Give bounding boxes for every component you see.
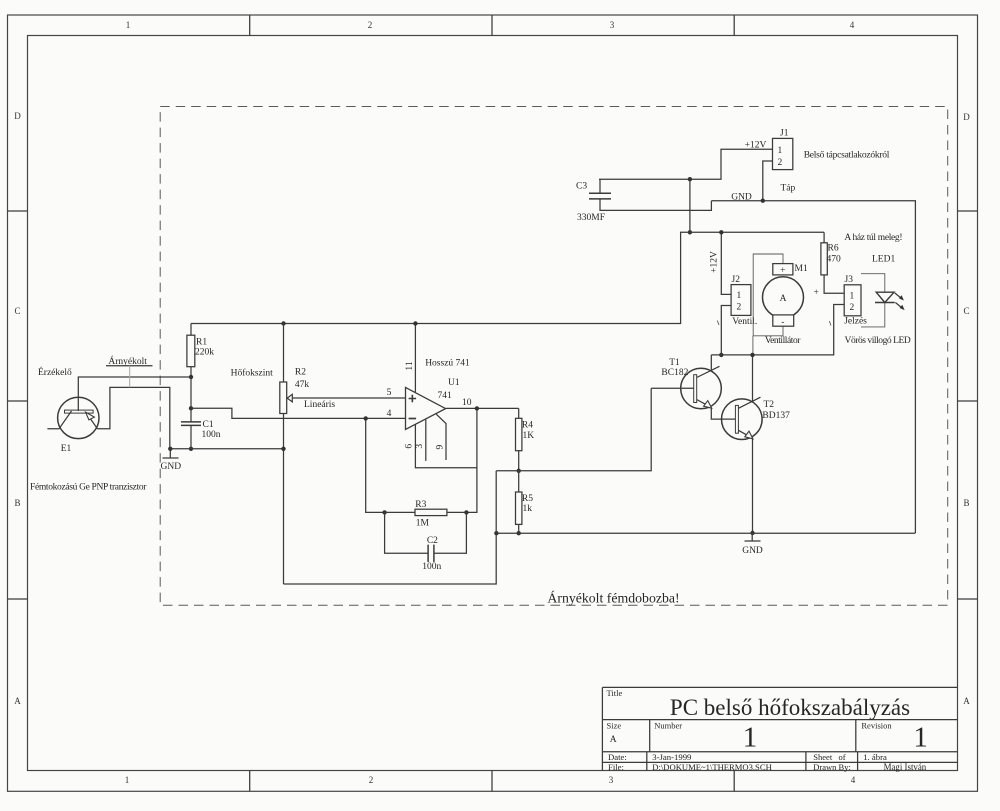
LED external wiring bottom: [861, 303, 885, 327]
GND net wire: [711, 201, 915, 533]
svg-text:Sheet of: Sheet of: [813, 752, 846, 762]
svg-text:GND: GND: [161, 462, 182, 472]
svg-text:10: 10: [462, 398, 472, 408]
R3 leads: [385, 511, 467, 513]
wire sensor node to pin4: [191, 408, 406, 418]
resistor R5: [516, 492, 522, 524]
R1 node junction: [189, 375, 193, 379]
svg-text:1k: 1k: [523, 504, 533, 514]
node X wire to T1 base: [496, 388, 651, 471]
svg-text:4: 4: [851, 775, 856, 785]
title block cell separators: [647, 720, 858, 771]
LED1 flash arrow 1: [895, 293, 903, 300]
E1 emitter diagonal with arrow: [90, 418, 98, 429]
svg-text:R3: R3: [415, 500, 426, 510]
svg-text:+: +: [780, 266, 785, 276]
title block outline: [602, 687, 957, 771]
svg-text:C: C: [963, 306, 969, 316]
svg-text:Fémtokozású Ge PNP tranzisztor: Fémtokozású Ge PNP tranzisztor: [30, 482, 147, 492]
svg-text:741: 741: [438, 391, 453, 401]
svg-text:5: 5: [387, 388, 392, 398]
svg-text:-: -: [781, 317, 784, 327]
+12V distribution rail: [191, 232, 824, 323]
wire J1 pin2 to GND: [763, 161, 773, 201]
svg-text:A: A: [610, 735, 617, 745]
svg-text:+12V: +12V: [710, 251, 720, 273]
junction J1 pin2 gnd: [761, 199, 765, 203]
svg-text:3: 3: [609, 775, 614, 785]
T2 emitter gnd junction: [750, 531, 754, 535]
output junction: [475, 406, 479, 410]
resistor R1: [187, 335, 195, 367]
svg-text:2: 2: [737, 303, 742, 313]
svg-text:9: 9: [435, 444, 445, 449]
svg-text:R2: R2: [295, 368, 306, 378]
svg-text:Drawn By:: Drawn By:: [813, 762, 851, 772]
minus input mark: [409, 418, 417, 420]
R2 gnd junction: [281, 447, 285, 451]
pin4 feedback junction: [364, 416, 368, 420]
svg-text:1M: 1M: [416, 518, 430, 528]
svg-text:2: 2: [850, 303, 855, 313]
T1 emitter: [697, 400, 736, 420]
svg-text:1: 1: [850, 291, 855, 301]
E1 emitter wire to ground: [98, 387, 170, 448]
motor plus terminal box: [773, 264, 793, 275]
svg-text:Táp: Táp: [781, 184, 796, 194]
svg-text:Revision: Revision: [861, 720, 892, 730]
R2 wiper arrow: [292, 397, 405, 399]
svg-text:T2: T2: [764, 400, 775, 410]
svg-text:Hőfokszint: Hőfokszint: [231, 367, 274, 378]
T2 emitter: [738, 430, 752, 533]
T1 base lead: [651, 387, 694, 389]
R3 left junction: [382, 510, 386, 514]
svg-text:E1: E1: [61, 444, 72, 454]
svg-text:1. ábra: 1. ábra: [863, 752, 887, 762]
wire +12V from J1 pin1: [599, 149, 773, 179]
resistor R6: [821, 243, 827, 275]
svg-text:1: 1: [778, 146, 783, 156]
pin 9 stub: [436, 414, 446, 460]
svg-text:B: B: [14, 498, 20, 508]
R5 bottom lead: [518, 524, 520, 533]
svg-text:1: 1: [743, 722, 758, 754]
ground symbol left: [163, 449, 179, 458]
svg-text:1: 1: [913, 722, 928, 754]
svg-text:A: A: [963, 696, 970, 706]
svg-text:100n: 100n: [422, 562, 441, 572]
svg-text:R1: R1: [196, 338, 207, 348]
svg-text:1K: 1K: [523, 431, 535, 441]
R2 bottom lead crossing to gnd: [283, 414, 285, 585]
svg-text:+12V: +12V: [745, 141, 767, 151]
svg-text:1: 1: [737, 291, 742, 301]
pin 11 rail junction: [413, 321, 417, 325]
svg-text:Date:: Date:: [608, 752, 627, 762]
node X junction: [517, 469, 521, 473]
svg-text:Hosszú 741: Hosszú 741: [425, 359, 470, 369]
svg-text:D: D: [14, 111, 21, 121]
potentiometer R2 top lead: [283, 324, 285, 383]
svg-text:100n: 100n: [202, 430, 221, 440]
svg-text:M1: M1: [795, 264, 808, 274]
svg-text:2: 2: [778, 158, 783, 168]
svg-text:C3: C3: [576, 182, 587, 192]
svg-text:GND: GND: [742, 546, 763, 556]
svg-text:B: B: [963, 498, 969, 508]
E1 collector diagonal and stub: [47, 411, 71, 429]
plus input mark: [409, 395, 417, 403]
tick mark near Jelzes: [829, 321, 831, 326]
svg-text:File:: File:: [608, 762, 624, 772]
svg-text:Magi István: Magi István: [884, 762, 927, 772]
C3 top lead: [599, 179, 601, 193]
node junction on +12V wire: [688, 177, 692, 181]
junction J2 pin2 rail: [719, 353, 723, 357]
LED1 cathode bar: [875, 302, 895, 304]
top band zone ticks: [250, 15, 735, 36]
tick mark near Ventil: [717, 321, 719, 326]
C3 bottom lead wire: [600, 199, 711, 211]
svg-text:A ház túl meleg!: A ház túl meleg!: [844, 233, 902, 243]
capacitor C1: [181, 422, 201, 426]
svg-text:3-Jan-1999: 3-Jan-1999: [652, 752, 691, 762]
junction rail J2: [719, 230, 723, 234]
capacitor C2 plates: [428, 545, 434, 562]
svg-text:D: D: [963, 112, 970, 122]
fan loop drop to rail: [752, 336, 754, 354]
inverting node vertical to R3 left: [366, 418, 385, 512]
C2 right lead: [434, 512, 467, 553]
left band zone ticks: [8, 211, 28, 599]
svg-text:BD137: BD137: [762, 411, 790, 421]
svg-text:J2: J2: [732, 275, 741, 285]
svg-text:C2: C2: [427, 536, 438, 546]
svg-text:D:\DOKUME~1\THERMO3.SCH: D:\DOKUME~1\THERMO3.SCH: [652, 762, 771, 772]
fan external wiring loop: [753, 254, 783, 336]
LED1 triangle: [876, 292, 894, 302]
svg-text:470: 470: [827, 255, 842, 265]
collector rail: [711, 305, 844, 355]
T2 base bar: [735, 405, 738, 433]
ground bus wire: [496, 532, 915, 534]
R1 rail junction: [281, 321, 285, 325]
svg-text:4: 4: [850, 20, 855, 30]
wire rail to J2 pin1: [721, 232, 731, 294]
svg-text:Belső tápcsatlakozókról: Belső tápcsatlakozókról: [804, 150, 890, 160]
svg-text:220k: 220k: [195, 348, 214, 358]
left ground rail: [170, 448, 284, 450]
svg-text:1: 1: [125, 775, 130, 785]
svg-text:PC belső hőfokszabályzás: PC belső hőfokszabályzás: [670, 695, 910, 720]
wire +12V node down to rail: [689, 179, 691, 232]
output net vertical to R3: [466, 408, 477, 512]
capacitor C3: [589, 193, 611, 199]
svg-text:J3: J3: [845, 275, 854, 285]
svg-text:Number: Number: [654, 720, 682, 730]
resistor R3: [415, 509, 447, 515]
svg-text:4: 4: [387, 409, 392, 419]
R5 top lead: [518, 471, 520, 492]
shield tie line faint: [129, 366, 131, 388]
transistor T1 circle: [681, 368, 722, 409]
LED1 flash arrow 2: [895, 303, 903, 310]
E1 base bar: [65, 410, 94, 413]
svg-text:Érzékelő: Érzékelő: [38, 366, 72, 378]
T1 collector: [697, 355, 720, 378]
svg-text:2: 2: [369, 775, 374, 785]
transistor T2 circle: [722, 399, 763, 440]
potentiometer R2 body: [280, 382, 287, 414]
R1 top lead: [190, 324, 192, 336]
connector J2: [731, 285, 751, 316]
motor minus terminal box: [773, 315, 794, 326]
svg-text:A: A: [780, 294, 787, 304]
shielded enclosure dashed box: [160, 107, 948, 606]
C1 bottom lead: [190, 425, 192, 448]
pin 3 stub: [425, 420, 427, 461]
motor M1 circle: [763, 277, 804, 318]
svg-text:Size: Size: [607, 720, 622, 730]
gnd loop wire: [284, 471, 497, 584]
svg-text:3: 3: [610, 20, 615, 30]
svg-text:GND: GND: [731, 193, 752, 203]
E1 base lead wire to R1 node: [78, 377, 191, 411]
connector J1: [773, 138, 793, 169]
gnd bus left junction: [494, 531, 498, 535]
C2 left lead: [385, 512, 429, 553]
LED external wiring top: [861, 274, 885, 293]
svg-text:LED1: LED1: [872, 255, 895, 265]
pin 10 output wire: [446, 407, 519, 409]
op-amp U1 triangle: [406, 387, 446, 429]
svg-text:BC182: BC182: [661, 368, 688, 378]
svg-text:Ventillátor: Ventillátor: [765, 336, 801, 346]
svg-text:Vörös villogó LED: Vörös villogó LED: [845, 336, 911, 346]
T1 base bar: [694, 375, 697, 403]
right band zone ticks: [958, 211, 978, 599]
svg-text:+: +: [814, 288, 819, 298]
svg-text:6: 6: [405, 444, 415, 449]
C1 gnd junction: [189, 447, 193, 451]
svg-text:A: A: [14, 696, 21, 706]
R4 bottom lead: [518, 451, 520, 471]
svg-text:1: 1: [126, 20, 131, 30]
svg-text:47k: 47k: [295, 380, 310, 390]
svg-text:Title: Title: [607, 688, 623, 698]
svg-text:R6: R6: [828, 243, 839, 253]
R4 top lead: [518, 408, 520, 418]
sensor node junction: [189, 406, 193, 410]
R6 bottom lead to J3 pin1: [824, 275, 844, 293]
svg-text:Jelzés: Jelzés: [844, 317, 867, 327]
bottom band zone ticks: [250, 771, 735, 792]
R6 top lead: [823, 232, 825, 243]
pin 11 wire: [414, 324, 416, 393]
svg-text:Lineáris: Lineáris: [304, 400, 335, 410]
svg-text:R4: R4: [522, 420, 533, 430]
R5 gnd junction: [517, 531, 521, 535]
svg-text:Árnyékolt: Árnyékolt: [108, 355, 147, 367]
svg-text:C1: C1: [203, 420, 214, 430]
svg-text:3: 3: [415, 444, 425, 449]
feedback tap junction: [464, 510, 468, 514]
svg-text:U1: U1: [448, 378, 460, 388]
C1 top lead: [190, 408, 192, 422]
ground rail left junction: [168, 447, 172, 451]
svg-text:11: 11: [405, 361, 415, 370]
pin 6 stub: [415, 425, 477, 468]
connector J3: [844, 285, 861, 316]
+12V rail node: [688, 230, 692, 234]
svg-text:J1: J1: [780, 129, 789, 139]
ground symbol bottom: [745, 533, 761, 541]
T2 collector rail junction: [750, 353, 754, 357]
svg-text:T1: T1: [669, 358, 680, 368]
T2 collector: [738, 355, 760, 408]
wire J2 pin2 down to collector rail: [721, 306, 731, 355]
resistor R4: [516, 418, 522, 450]
svg-text:C: C: [14, 306, 20, 316]
svg-text:R5: R5: [522, 494, 533, 504]
svg-text:330MF: 330MF: [577, 213, 605, 223]
svg-text:2: 2: [368, 20, 373, 30]
svg-text:Árnyékolt fémdobozba!: Árnyékolt fémdobozba!: [547, 590, 679, 606]
transistor E1 circle: [58, 397, 99, 438]
R1 bottom lead: [190, 367, 192, 409]
